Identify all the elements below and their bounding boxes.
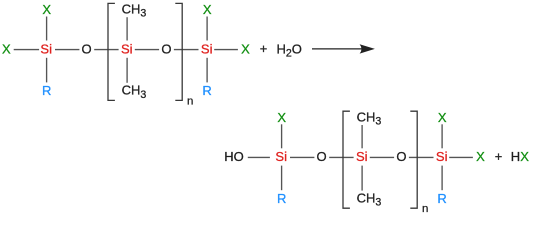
svg-text:CH3: CH3: [357, 190, 382, 208]
svg-text:HO: HO: [224, 149, 244, 164]
svg-text:O: O: [396, 149, 406, 164]
svg-text:n: n: [422, 203, 428, 215]
svg-text:O: O: [82, 41, 92, 56]
svg-text:Si: Si: [356, 149, 368, 164]
svg-text:O: O: [317, 149, 327, 164]
svg-text:Si: Si: [121, 41, 133, 56]
svg-text:X: X: [438, 110, 447, 125]
svg-text:X: X: [2, 41, 11, 56]
svg-text:X: X: [203, 2, 212, 17]
svg-text:CH3: CH3: [357, 109, 382, 127]
svg-text:n: n: [187, 95, 193, 107]
svg-text:R: R: [277, 191, 286, 206]
svg-text:H2O: H2O: [277, 41, 302, 59]
svg-text:X: X: [42, 2, 51, 17]
svg-text:R: R: [437, 191, 446, 206]
svg-text:Si: Si: [275, 149, 287, 164]
svg-text:Si: Si: [40, 41, 52, 56]
svg-text:R: R: [42, 83, 51, 98]
svg-text:O: O: [161, 41, 171, 56]
svg-text:Si: Si: [436, 149, 448, 164]
svg-text:X: X: [241, 41, 250, 56]
svg-text:CH3: CH3: [122, 83, 147, 101]
svg-text:Si: Si: [201, 41, 213, 56]
svg-text:CH3: CH3: [122, 2, 147, 20]
svg-text:X: X: [277, 110, 286, 125]
svg-text:R: R: [202, 83, 211, 98]
svg-text:HX: HX: [511, 149, 529, 164]
svg-text:X: X: [476, 149, 485, 164]
